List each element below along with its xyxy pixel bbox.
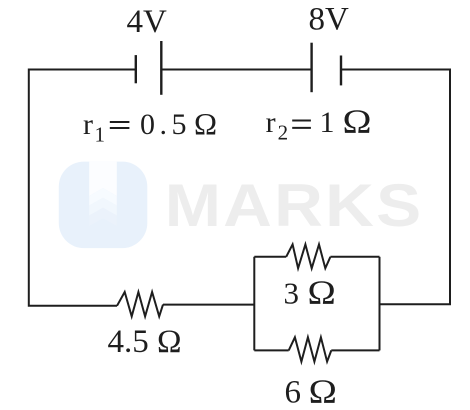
wire bottom middle to parallel box [163, 304, 254, 306]
label r1 = 0.5 ohm [83, 106, 217, 147]
svg-text:8V: 8V [309, 2, 350, 38]
svg-text:4V: 4V [127, 4, 168, 40]
battery B1 4V short plate (negative) [135, 55, 137, 83]
svg-text:4.5 Ω: 4.5 Ω [108, 324, 182, 360]
svg-text:Ω: Ω [194, 106, 217, 141]
wire top-left + left side + bottom-left [29, 70, 136, 306]
svg-text:Ω: Ω [309, 372, 337, 410]
svg-text:6: 6 [285, 375, 302, 410]
svg-text:1: 1 [320, 106, 335, 139]
svg-text:r: r [83, 108, 93, 141]
top branch wires [254, 256, 379, 258]
label 3 ohm [284, 273, 336, 311]
svg-text:3: 3 [284, 275, 300, 310]
watermark logo rounded square [59, 162, 148, 249]
resistor 4.5 ohm zigzag [117, 292, 163, 316]
svg-text:MARKS: MARKS [165, 172, 424, 240]
bottom branch wires [254, 349, 379, 351]
wire top-right + right side + bottom-right stub [341, 70, 450, 305]
svg-text:r: r [266, 106, 276, 139]
resistor 3 ohm zigzag [286, 244, 330, 268]
svg-text:0.5: 0.5 [140, 108, 191, 141]
svg-text:Ω: Ω [343, 102, 372, 140]
parallel box left side [253, 257, 255, 351]
svg-text:1: 1 [95, 123, 106, 147]
label r2 = 1 ohm [266, 102, 372, 145]
parallel box right side [379, 257, 381, 351]
label 6 ohm [285, 372, 337, 410]
resistor 6 ohm zigzag [289, 337, 332, 361]
battery B2 8V long plate (positive) [310, 43, 312, 92]
battery B1 4V long plate (positive) [160, 41, 162, 95]
battery B2 8V short plate (negative) [340, 56, 342, 86]
wire top-middle between batteries [161, 69, 311, 71]
svg-text:2: 2 [278, 121, 289, 145]
svg-text:Ω: Ω [308, 273, 336, 311]
